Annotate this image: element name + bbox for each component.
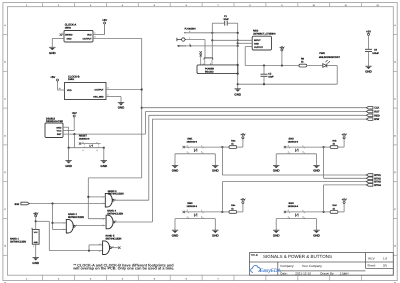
svg-text:GND: GND — [67, 38, 72, 41]
svg-text:SW2: SW2 — [289, 137, 295, 140]
svg-text:Company:: Company: — [280, 264, 294, 268]
svg-text:B/W: B/W — [374, 118, 379, 121]
svg-text:4: 4 — [288, 151, 289, 154]
svg-text:1825910-6: 1825910-6 — [187, 205, 198, 208]
svg-text:OUTPUT: OUTPUT — [95, 89, 105, 92]
svg-text:1825910-6: 1825910-6 — [288, 140, 299, 143]
svg-text:RESET: RESET — [79, 135, 88, 138]
svg-text:Your Company: Your Company — [302, 264, 323, 268]
svg-text:1.0: 1.0 — [383, 256, 388, 260]
svg-text:GND: GND — [313, 233, 320, 237]
svg-text:+5V: +5V — [342, 134, 347, 137]
svg-text:GND: GND — [273, 169, 280, 173]
svg-text:GND: GND — [56, 127, 61, 130]
svg-text:GND: GND — [34, 241, 39, 244]
svg-text:PWR: PWR — [319, 52, 325, 55]
svg-text:1825910-6: 1825910-6 — [187, 140, 198, 143]
svg-text:SIGNALS & POWER & BUTTONS: SIGNALS & POWER & BUTTONS — [263, 254, 332, 259]
svg-text:10: 10 — [102, 224, 104, 227]
svg-text:5: 5 — [102, 202, 103, 205]
svg-text:+5V: +5V — [240, 134, 245, 137]
svg-text:MNL5013NGCDGT: MNL5013NGCDGT — [319, 56, 341, 59]
svg-text:7: 7 — [108, 94, 109, 97]
svg-text:GND: GND — [101, 164, 108, 168]
svg-text:INPUT: INPUT — [254, 39, 261, 42]
svg-text:3: 3 — [303, 151, 304, 154]
svg-text:GND: GND — [254, 42, 259, 45]
svg-text:VDD: VDD — [67, 89, 72, 92]
svg-text:GND: GND — [212, 233, 219, 237]
svg-text:4: 4 — [187, 151, 188, 154]
svg-text:2: 2 — [63, 228, 64, 231]
svg-text:1: 1 — [95, 32, 96, 35]
svg-text:1MHz: 1MHz — [65, 26, 72, 29]
svg-text:2: 2 — [62, 32, 63, 35]
svg-text:2: 2 — [187, 209, 188, 212]
svg-text:+5V: +5V — [102, 19, 107, 22]
svg-text:1825910-6: 1825910-6 — [79, 138, 90, 141]
svg-text:Drawn By:: Drawn By: — [320, 272, 334, 276]
svg-text:OUTPUT: OUTPUT — [83, 38, 93, 41]
svg-text:8: 8 — [95, 36, 96, 39]
svg-text:GND: GND — [273, 233, 280, 237]
svg-text:+5V: +5V — [342, 199, 347, 202]
svg-text:GND: GND — [234, 92, 241, 96]
svg-text:SN74HC132N: SN74HC132N — [108, 193, 124, 196]
svg-text:GND: GND — [49, 51, 56, 55]
svg-text:SN74HC132N: SN74HC132N — [107, 212, 123, 215]
svg-text:EN/S/D: EN/S/D — [65, 34, 73, 37]
svg-text:2021-12-10: 2021-12-10 — [295, 272, 311, 276]
svg-text:REG: REG — [253, 30, 258, 33]
svg-text:3: 3 — [97, 149, 98, 152]
svg-text:VCC: VCC — [57, 130, 62, 133]
svg-text:4: 4 — [187, 215, 188, 218]
svg-text:1MHz: 1MHz — [68, 78, 75, 81]
svg-text:SN74HC132N: SN74HC132N — [68, 216, 84, 219]
svg-text:SW3: SW3 — [187, 202, 193, 205]
svg-text:LM7805CT_CT253H9: LM7805CT_CT253H9 — [253, 33, 276, 36]
svg-text:TITLE:: TITLE: — [251, 254, 259, 257]
svg-text:2/5: 2/5 — [383, 264, 388, 268]
svg-text:GND: GND — [212, 169, 219, 173]
svg-text:1: 1 — [303, 144, 304, 147]
svg-text:10uF: 10uF — [223, 18, 229, 21]
svg-text:GND: GND — [118, 106, 125, 110]
svg-text:2: 2 — [288, 144, 289, 147]
svg-text:SN74HC132N: SN74HC132N — [106, 237, 122, 240]
svg-text:RST: RST — [374, 111, 380, 114]
svg-text:14: 14 — [59, 87, 61, 90]
svg-text:12: 12 — [99, 243, 101, 246]
svg-text:2: 2 — [83, 141, 84, 144]
svg-text:13: 13 — [99, 250, 101, 253]
svg-text:OUTPUT: OUTPUT — [254, 46, 264, 49]
svg-text:Date:: Date: — [280, 272, 287, 276]
svg-text:1: 1 — [63, 222, 64, 225]
svg-text:+5V: +5V — [366, 30, 371, 33]
svg-text:B/W: B/W — [15, 203, 20, 206]
svg-text:GND: GND — [313, 169, 320, 173]
svg-text:SW4: SW4 — [289, 202, 295, 205]
svg-text:4: 4 — [83, 149, 84, 152]
svg-text:RST: RST — [57, 133, 62, 136]
svg-text:1: 1 — [97, 141, 98, 144]
svg-text:10uF: 10uF — [268, 76, 274, 79]
svg-text:1: 1 — [201, 209, 202, 212]
svg-text:will overlap on the PCB. Only: will overlap on the PCB. Only one can be… — [72, 267, 174, 271]
svg-text:EasyEDA: EasyEDA — [260, 268, 281, 274]
svg-text:8: 8 — [108, 87, 109, 90]
svg-text:3: 3 — [303, 215, 304, 218]
svg-text:SW1: SW1 — [187, 137, 193, 140]
svg-text:VDD: VDD — [87, 34, 92, 37]
svg-text:RED: RED — [374, 114, 380, 117]
svg-text:DS1813-5+T&R: DS1813-5+T&R — [46, 120, 63, 123]
svg-text:2: 2 — [187, 144, 188, 147]
svg-text:2: 2 — [288, 209, 289, 212]
svg-text:GND: GND — [65, 164, 72, 168]
svg-text:1: 1 — [201, 144, 202, 147]
svg-text:CLK: CLK — [374, 107, 379, 110]
svg-text:EG1213: EG1213 — [205, 71, 214, 74]
svg-text:GND: GND — [365, 70, 372, 74]
svg-text:POWER: POWER — [205, 68, 214, 71]
svg-text:+5V: +5V — [240, 199, 245, 202]
svg-text:REV:: REV: — [368, 256, 375, 260]
svg-text:GND: GND — [32, 261, 39, 265]
svg-text:OSC_GND: OSC_GND — [93, 95, 104, 98]
svg-text:+5V: +5V — [50, 76, 55, 79]
svg-text:100uF: 100uF — [372, 52, 379, 55]
svg-text:3: 3 — [201, 151, 202, 154]
svg-text:BTN4: BTN4 — [374, 184, 381, 187]
svg-text:3: 3 — [201, 215, 202, 218]
svg-text:4: 4 — [288, 215, 289, 218]
svg-text:GND: GND — [172, 169, 179, 173]
svg-text:Sheet:: Sheet: — [367, 264, 376, 268]
svg-text:14: 14 — [31, 227, 33, 230]
svg-text:GND: GND — [172, 233, 179, 237]
svg-text:JJdaH: JJdaH — [340, 272, 349, 276]
svg-text:1825910-6: 1825910-6 — [288, 205, 299, 208]
svg-text:SN74HC132N: SN74HC132N — [10, 241, 26, 244]
svg-text:7: 7 — [33, 245, 34, 248]
svg-text:1: 1 — [303, 209, 304, 212]
